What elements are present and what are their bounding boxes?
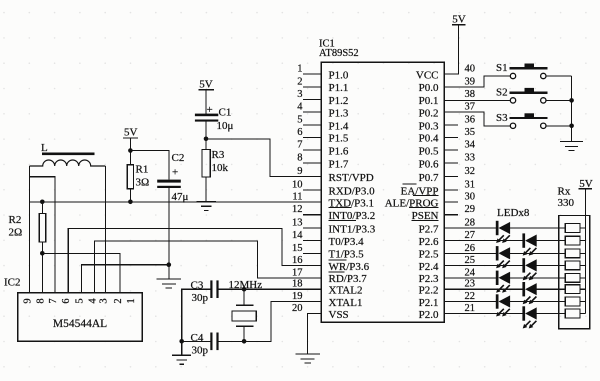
resistor R3 10k: [202, 149, 229, 177]
ground below VSS: [295, 354, 320, 363]
AT89S52 value label: [319, 48, 359, 59]
svg-text:C2: C2: [172, 152, 185, 164]
svg-text:+: +: [207, 104, 213, 116]
wire LED D3 to resistor network: [510, 252, 565, 254]
svg-text:RXD/P3.0: RXD/P3.0: [329, 185, 376, 197]
junction switch bus / S3: [569, 124, 574, 129]
Rx value 330: [558, 197, 575, 209]
svg-text:P2.1: P2.1: [419, 297, 439, 309]
svg-text:12: 12: [292, 204, 303, 215]
svg-text:9: 9: [297, 166, 302, 177]
net wire to IC1 pin 11: [30, 201, 322, 203]
12MHz label: [229, 279, 263, 291]
LED D1 (pin 28): [496, 221, 510, 243]
svg-text:22: 22: [465, 291, 476, 302]
svg-text:P2.5: P2.5: [419, 249, 439, 261]
wire LED D2 to resistor network: [537, 240, 566, 242]
svg-text:P0.2: P0.2: [419, 108, 439, 120]
capacitor C1 10u (polarized): [195, 104, 234, 132]
svg-text:5: 5: [297, 115, 302, 126]
5V supply symbol above R1: [123, 126, 138, 138]
wire inductor right to IC2 pin 3: [104, 166, 106, 293]
svg-text:10: 10: [292, 180, 303, 191]
svg-text:P2.6: P2.6: [419, 236, 439, 248]
svg-text:L: L: [41, 142, 48, 154]
svg-text:3: 3: [297, 89, 302, 100]
resistor Rx element 2: [565, 236, 585, 245]
active-low bars on IC1 labels: [329, 184, 439, 272]
wire IC1 pin 27 to LED: [444, 240, 522, 242]
LED D8 (pin 21): [522, 306, 536, 328]
svg-text:5V: 5V: [199, 78, 213, 90]
switch common bus wire: [571, 76, 573, 142]
svg-text:XTAL2: XTAL2: [329, 285, 363, 297]
svg-text:30p: 30p: [192, 292, 209, 304]
resistor R1 3ohm: [127, 164, 149, 189]
junction crystal top: [242, 287, 247, 292]
svg-text:RD/P3.7: RD/P3.7: [329, 273, 368, 285]
wire IC1 pin 22 to LED: [444, 301, 496, 303]
svg-text:P1.5: P1.5: [329, 133, 349, 145]
svg-text:RST/VPD: RST/VPD: [329, 172, 374, 184]
wire IC2 pin 6 to IC1 pin 16: [68, 228, 321, 292]
wire C3 left to ground rail: [182, 289, 211, 341]
IC1 reference label: [319, 39, 335, 50]
IC1 left pin stubs (pins 1-8,10,12-15): [303, 74, 321, 253]
resistor Rx element 3: [565, 249, 585, 258]
svg-text:R2: R2: [9, 214, 22, 226]
svg-text:P2.7: P2.7: [419, 223, 439, 235]
IC1 right pin function labels: [385, 69, 439, 321]
IC1 left pin function labels: [329, 69, 376, 321]
svg-text:R3: R3: [212, 149, 225, 161]
svg-text:11: 11: [292, 192, 302, 203]
IC2 reference label: [4, 277, 21, 289]
wire C3 right to IC1 pin 18: [219, 288, 321, 290]
wire R2 top lead: [41, 202, 43, 214]
svg-text:9: 9: [23, 298, 34, 303]
svg-text:32: 32: [465, 166, 476, 177]
svg-text:P2.4: P2.4: [419, 261, 439, 273]
svg-text:5V: 5V: [452, 13, 466, 25]
svg-text:6: 6: [61, 298, 72, 303]
svg-text:8: 8: [35, 298, 46, 303]
junction C4 ground rail: [179, 339, 184, 344]
switch S1 (pin 39): [444, 62, 572, 87]
M54544AL value label: [53, 318, 107, 330]
svg-text:C1: C1: [219, 107, 232, 119]
LED D7 (pin 22): [496, 294, 510, 316]
svg-text:7: 7: [297, 140, 302, 151]
svg-text:330: 330: [558, 197, 575, 209]
svg-text:P2.2: P2.2: [419, 285, 439, 297]
junction R1 bottom: [128, 200, 133, 205]
svg-text:37: 37: [465, 102, 476, 113]
svg-text:35: 35: [465, 127, 476, 138]
5V supply symbol above Rx: [579, 178, 593, 190]
junction switch bus / S2: [569, 98, 574, 103]
wire VSS pin 20 to ground: [308, 314, 322, 355]
svg-text:24: 24: [465, 267, 476, 278]
svg-text:6: 6: [297, 127, 302, 138]
svg-text:XTAL1: XTAL1: [329, 297, 363, 309]
svg-text:4: 4: [87, 298, 98, 304]
svg-text:P0.4: P0.4: [419, 133, 439, 145]
svg-text:P1.3: P1.3: [329, 108, 349, 120]
svg-text:P1.6: P1.6: [329, 145, 349, 157]
wire R2 bottom to IC2 pin 8: [41, 242, 43, 293]
wire LED D6 to resistor network: [537, 288, 566, 290]
svg-text:C4: C4: [191, 332, 204, 344]
svg-text:39: 39: [465, 76, 476, 87]
svg-text:P2.3: P2.3: [419, 273, 439, 285]
crystal Y1 12MHz: [232, 289, 256, 341]
resistor R2 2ohm: [9, 213, 46, 242]
svg-text:P1.7: P1.7: [329, 158, 349, 170]
inductor L winding: [30, 160, 106, 166]
switch S2 (pin 38): [444, 86, 572, 103]
wire LED D4 to resistor network: [537, 264, 566, 266]
capacitor C2 47u (polarized): [157, 152, 188, 203]
svg-text:34: 34: [465, 140, 476, 151]
svg-text:13: 13: [292, 218, 303, 229]
svg-text:17: 17: [292, 267, 303, 278]
capacitor C4 30p: [191, 332, 219, 357]
LED D5 (pin 24): [496, 271, 510, 293]
svg-text:36: 36: [465, 115, 476, 126]
svg-text:P0.1: P0.1: [419, 95, 439, 107]
wire C2 bottom to ground node: [168, 188, 170, 265]
svg-text:33: 33: [465, 153, 476, 164]
svg-text:3: 3: [98, 298, 109, 303]
svg-text:P0.0: P0.0: [419, 82, 439, 94]
junction R2 top: [40, 200, 45, 205]
resistor Rx element 8: [565, 309, 585, 318]
svg-text:31: 31: [465, 180, 476, 191]
LED D6 (pin 23): [522, 282, 536, 304]
svg-text:18: 18: [292, 279, 303, 290]
LEDx8 label: [497, 207, 530, 219]
junction C2 ground node: [167, 262, 172, 267]
wire 5V to C1: [205, 90, 207, 114]
svg-text:VCC: VCC: [416, 69, 439, 81]
svg-text:M54544AL: M54544AL: [53, 318, 107, 330]
wire VCC pin40 to 5V: [444, 25, 458, 74]
wire IC2 pin 4 to IC1 pin 17: [94, 241, 321, 293]
wire 5V to R1 top: [129, 139, 131, 165]
junction R2 bottom: [40, 251, 45, 256]
ground below switches: [560, 142, 583, 151]
svg-text:S3: S3: [496, 112, 508, 124]
wire R3 to ground: [205, 177, 207, 201]
wire inductor left to IC2 pin 9: [29, 166, 31, 293]
wire RST node to IC1 pin 9: [206, 139, 321, 177]
5V supply symbol above C1: [198, 78, 214, 90]
svg-text:VSS: VSS: [329, 309, 349, 321]
IC2 pin numbers 9-1: [23, 298, 137, 304]
5V supply symbol above VCC: [452, 13, 466, 25]
Rx common bus wire to 5V: [584, 189, 586, 314]
svg-text:19: 19: [292, 291, 303, 302]
svg-text:P1.4: P1.4: [329, 121, 349, 133]
wire R1 top junction to C2: [130, 151, 168, 180]
wire C4 right to IC1 pin 19: [219, 302, 321, 342]
svg-text:8: 8: [297, 153, 302, 164]
wire LED D7 to resistor network: [510, 301, 565, 303]
LED D3 (pin 26): [496, 246, 510, 268]
ground below R3: [196, 201, 216, 210]
svg-text:30p: 30p: [192, 344, 209, 356]
resistor Rx element 6: [565, 285, 585, 294]
svg-text:IC2: IC2: [4, 277, 21, 289]
svg-text:1: 1: [126, 298, 137, 303]
wire LED D8 to resistor network: [537, 313, 566, 315]
wire ground rail down: [181, 341, 183, 355]
svg-text:P0.7: P0.7: [419, 172, 439, 184]
svg-text:4: 4: [297, 102, 303, 113]
svg-text:14: 14: [292, 230, 303, 241]
wire IC1 pin 28 to LED: [444, 227, 496, 229]
wire ground node down: [168, 265, 170, 279]
wire LED D1 to resistor network: [510, 227, 565, 229]
switch S3 (pin 37): [444, 112, 572, 129]
svg-text:27: 27: [465, 230, 476, 241]
LED D4 (pin 25): [522, 258, 536, 280]
svg-text:30: 30: [465, 192, 476, 203]
svg-text:40: 40: [465, 64, 476, 75]
svg-text:INT1/P3.3: INT1/P3.3: [329, 223, 376, 235]
svg-text:23: 23: [465, 279, 476, 290]
resistor Rx element 5: [565, 273, 585, 282]
svg-text:P1.2: P1.2: [329, 95, 349, 107]
svg-text:T0/P3.4: T0/P3.4: [329, 236, 365, 248]
svg-text:10k: 10k: [212, 162, 229, 174]
IC1 right pin numbers 40-21: [465, 64, 476, 315]
IC1 right pin stubs (pins 36-29): [444, 125, 458, 215]
svg-text:S2: S2: [496, 86, 508, 98]
svg-text:P1.0: P1.0: [329, 69, 349, 81]
svg-text:15: 15: [292, 243, 303, 254]
svg-text:29: 29: [465, 204, 476, 215]
svg-text:47μ: 47μ: [172, 191, 189, 203]
svg-text:2: 2: [113, 298, 124, 303]
svg-text:LEDx8: LEDx8: [497, 207, 530, 219]
wire R1 bottom to node: [129, 189, 131, 202]
junction 5V/R1/C2: [128, 148, 133, 153]
svg-text:25: 25: [465, 255, 476, 266]
svg-text:P0.5: P0.5: [419, 145, 439, 157]
wire IC1 pin 25 to LED: [444, 264, 522, 266]
junction C1/R3/RST node: [204, 137, 209, 142]
capacitor C3 30p: [191, 280, 219, 305]
svg-text:2Ω: 2Ω: [9, 227, 23, 239]
svg-text:T1/P3.5: T1/P3.5: [329, 249, 365, 261]
LED D2 (pin 27): [522, 233, 536, 255]
IC IC2 M54544AL body: [18, 293, 143, 342]
svg-text:28: 28: [465, 218, 476, 229]
wire IC1 pin 26 to LED: [444, 252, 496, 254]
svg-text:26: 26: [465, 243, 476, 254]
ground below C3/C4: [172, 355, 191, 364]
svg-text:16: 16: [292, 255, 303, 266]
svg-text:+: +: [172, 167, 178, 179]
IC U1 AT89S52 body: [321, 62, 444, 322]
svg-text:1: 1: [297, 64, 302, 75]
wire IC1 pin 21 to LED: [444, 313, 522, 315]
svg-text:P0.6: P0.6: [419, 158, 439, 170]
svg-text:P2.0: P2.0: [419, 309, 439, 321]
svg-text:7: 7: [48, 298, 59, 303]
wire IC1 pin 24 to LED: [444, 277, 496, 279]
svg-text:5V: 5V: [124, 126, 138, 138]
IC1 left pin numbers 1-20: [292, 64, 303, 315]
Rx reference label: [558, 186, 571, 198]
svg-text:5: 5: [75, 298, 86, 303]
inductor L label: [41, 142, 95, 155]
wire step branch to IC2 pin 7: [30, 177, 56, 293]
svg-text:3Ω: 3Ω: [136, 177, 150, 189]
svg-text:AT89S52: AT89S52: [319, 48, 359, 59]
svg-text:P0.3: P0.3: [419, 121, 439, 133]
svg-text:WR/P3.6: WR/P3.6: [329, 261, 370, 273]
ground below C2: [157, 279, 182, 288]
svg-text:R1: R1: [136, 164, 149, 176]
svg-text:S1: S1: [496, 62, 508, 74]
resistor Rx element 1: [565, 224, 585, 233]
resistor Rx element 7: [565, 297, 585, 306]
wire IC2 pin 5 to ground: [82, 265, 169, 293]
svg-text:10μ: 10μ: [217, 120, 234, 132]
wire R2 bottom to IC2 pin 2: [42, 253, 120, 292]
resistor Rx element 4: [565, 261, 585, 270]
svg-text:2: 2: [297, 76, 302, 87]
wire LED D5 to resistor network: [510, 277, 565, 279]
wire IC1 pin 23 to LED: [444, 288, 522, 290]
wire C1 to R3 junction: [205, 122, 207, 150]
svg-text:P1.1: P1.1: [329, 82, 349, 94]
svg-text:38: 38: [465, 89, 476, 100]
svg-text:Rx: Rx: [558, 186, 571, 198]
svg-text:20: 20: [292, 303, 303, 314]
wire C4 left to ground rail: [182, 340, 211, 342]
svg-text:21: 21: [465, 303, 476, 314]
resistor network Rx body: [559, 216, 590, 329]
junction crystal bottom: [242, 339, 247, 344]
